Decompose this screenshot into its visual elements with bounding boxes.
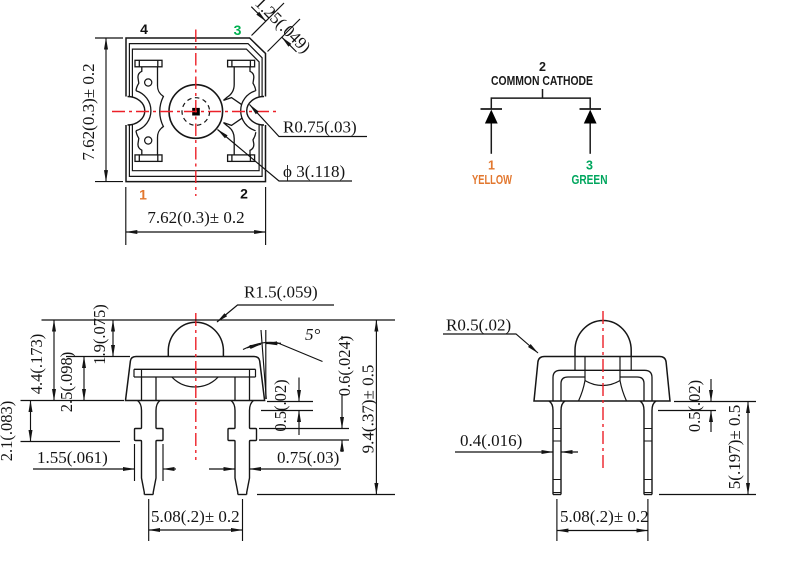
- pin 4 lead bar (top-left): [135, 60, 162, 67]
- svg-text:ϕ 3(.118): ϕ 3(.118): [283, 162, 345, 181]
- diode D1 anode triangle: [485, 110, 498, 124]
- side body outline: [534, 357, 670, 402]
- dimension 5.08(.2)+-0.2 side: [557, 499, 648, 541]
- ledge right end cap: [250, 369, 256, 377]
- dome cylinder lines inside body: [575, 357, 631, 371]
- front epoxy dome: [168, 322, 223, 356]
- right leg below body with bulge and taper: [228, 401, 238, 495]
- svg-text:1.55(.061): 1.55(.061): [37, 448, 108, 467]
- diode D1 cathode bar: [481, 108, 503, 110]
- svg-text:GREEN: GREEN: [572, 173, 608, 187]
- red centerline horizontal (top view): [112, 111, 276, 113]
- hole in bottom-left paddle: [145, 137, 152, 144]
- dimension 5 degrees draft angle: [243, 330, 323, 399]
- left lead frame inner edge wrapping lens: [158, 67, 164, 155]
- dashed inner lens circle: [182, 98, 210, 126]
- side epoxy dome: [575, 321, 631, 357]
- right leg (side view): [640, 401, 656, 495]
- top view middle body outline: [129, 44, 262, 177]
- svg-text:2: 2: [539, 60, 546, 74]
- dimension 0.5(.02) front: [261, 378, 313, 436]
- dimension 0.5(.02) side: [658, 379, 756, 432]
- lens circle phi3: [169, 85, 223, 139]
- right leg tip: [238, 494, 247, 496]
- dimension 2.1(.083): [30, 401, 32, 442]
- svg-text:0.5(.02): 0.5(.02): [271, 379, 290, 431]
- ledge left end cap: [134, 369, 142, 377]
- reflector cup right flare: [620, 381, 627, 402]
- svg-text:5°: 5°: [305, 325, 321, 344]
- diode D2 cathode bar: [580, 108, 602, 110]
- hole in top-left paddle: [145, 79, 152, 86]
- svg-text:R0.5(.02): R0.5(.02): [446, 316, 511, 335]
- top-right lead paddle (pin 3) outer edge: [250, 67, 256, 91]
- dimension 1.9(.075): [66, 320, 130, 357]
- wire D2 anode to pin 3: [589, 124, 591, 154]
- svg-text:3: 3: [586, 159, 593, 173]
- svg-text:2.5(.098): 2.5(.098): [57, 352, 76, 413]
- left notch semicircle R0.75: [128, 97, 145, 126]
- dimension 5.08(.2)+-0.2 front: [149, 499, 243, 541]
- reflector cup vertical sides: [585, 357, 620, 381]
- dimension 9.4(.37)+-0.5: [257, 320, 395, 495]
- dimension 5(.197)+-0.5: [659, 402, 756, 495]
- left leg below body with bulge and taper: [135, 401, 145, 495]
- svg-text:0.75(.03): 0.75(.03): [277, 448, 339, 467]
- wire bus to D1 cathode: [490, 97, 492, 109]
- bottom-right lead paddle (pin 2) inner edge: [224, 118, 243, 155]
- reflector ball arc under ledge: [172, 377, 218, 387]
- body bottom extension line left: [21, 400, 125, 402]
- svg-text:1: 1: [488, 159, 495, 173]
- top-right lead paddle (pin 3) inner edge: [224, 67, 243, 105]
- wire from label to bus: [542, 89, 544, 98]
- bulge bottom extension line left: [21, 441, 121, 443]
- svg-text:0.4(.016): 0.4(.016): [460, 431, 522, 450]
- lens ball bottom arc: [585, 381, 620, 386]
- left lead frame outer edge (pins 1&4 paddle): [136, 67, 142, 155]
- svg-text:R0.75(.03): R0.75(.03): [283, 118, 357, 137]
- lead frame ledge top line: [134, 368, 256, 370]
- front body outline: [126, 357, 265, 401]
- svg-text:1.9(.075): 1.9(.075): [90, 304, 109, 365]
- dimension phi3(.118) leader: [218, 130, 353, 182]
- reflector cup left flare: [579, 381, 586, 402]
- svg-text:R1.5(.059): R1.5(.059): [244, 283, 318, 302]
- dimension 2.5(.098): [83, 357, 85, 401]
- inner lead frame arch right: [620, 377, 644, 401]
- diode D2 anode triangle: [584, 110, 597, 124]
- svg-text:1: 1: [139, 187, 147, 203]
- svg-text:5(.197)± 0.5: 5(.197)± 0.5: [725, 405, 744, 489]
- pin 2 lead bar (bottom-right): [228, 155, 255, 162]
- left leg tip (side view): [553, 494, 561, 496]
- dimension 4.4(.173): [53, 320, 55, 401]
- red centerline vertical (side view): [602, 311, 604, 468]
- svg-text:2.1(.083): 2.1(.083): [0, 401, 16, 462]
- svg-text:4: 4: [140, 21, 148, 37]
- top view outer body outline with chamfer: [126, 38, 266, 182]
- svg-text:5.08(.2)± 0.2: 5.08(.2)± 0.2: [151, 507, 240, 526]
- svg-text:3: 3: [234, 22, 242, 38]
- svg-text:2: 2: [240, 186, 248, 202]
- cathode bus wire: [491, 97, 590, 99]
- dimension 0.4(.016): [455, 451, 578, 453]
- dimension 0.6(.024): [259, 336, 349, 452]
- svg-text:5.08(.2)± 0.2: 5.08(.2)± 0.2: [560, 507, 649, 526]
- crimp tick marks left leg: [553, 429, 561, 493]
- lead arc around right notch: [241, 91, 256, 131]
- pin 3 lead bar (top-right): [228, 60, 255, 67]
- lead arc around left notch: [136, 91, 151, 131]
- top view inner body outline: [132, 49, 259, 171]
- svg-text:4.4(.173): 4.4(.173): [27, 334, 46, 395]
- dimension 1.55(.061): [33, 444, 176, 481]
- dimension 1.25(.049) chamfer callout: [251, 3, 300, 52]
- dimension 0.75(.03): [209, 468, 341, 470]
- bottom-right lead paddle (pin 2) outer edge: [250, 132, 256, 155]
- left leg inside body: [142, 377, 157, 401]
- red centerline vertical (front view): [195, 313, 197, 460]
- red centerline vertical (top view): [195, 30, 197, 197]
- inner lead frame arch left: [561, 377, 585, 401]
- svg-text:7.62(0.3)± 0.2: 7.62(0.3)± 0.2: [79, 63, 98, 160]
- outer lead frame arch: [553, 370, 652, 401]
- svg-text:COMMON CATHODE: COMMON CATHODE: [491, 74, 593, 88]
- svg-text:9.4(.37)± 0.5: 9.4(.37)± 0.5: [359, 365, 378, 454]
- right leg inside body: [235, 377, 250, 401]
- wire bus to D2 cathode: [589, 97, 591, 109]
- svg-text:YELLOW: YELLOW: [472, 173, 512, 187]
- right leg tip (side view): [644, 494, 652, 496]
- dome top extension line: [42, 319, 396, 321]
- dimension R0.5(.02) leader: [443, 334, 538, 353]
- lead frame ledge bottom line: [134, 376, 256, 378]
- dimension 7.62(0.3)+-0.2 left side of top view: [95, 38, 123, 182]
- dimension 7.62(0.3)+-0.2 bottom of top view: [126, 187, 266, 245]
- LED chip (black square): [192, 108, 200, 116]
- svg-text:0.6(.024): 0.6(.024): [335, 336, 354, 397]
- left leg tip: [144, 494, 153, 496]
- pin 1 lead bar (bottom-left): [135, 155, 162, 162]
- left leg (side view): [549, 401, 565, 495]
- crimp tick marks right leg: [644, 429, 652, 493]
- right notch semicircle R0.75: [247, 97, 264, 126]
- dimension R0.75(.03) leader: [250, 105, 368, 137]
- svg-text:0.5(.02): 0.5(.02): [685, 380, 704, 432]
- wire D1 anode to pin 1: [490, 124, 492, 154]
- svg-text:7.62(0.3)± 0.2: 7.62(0.3)± 0.2: [147, 208, 244, 227]
- dimension R1.5(.059) leader: [217, 305, 334, 322]
